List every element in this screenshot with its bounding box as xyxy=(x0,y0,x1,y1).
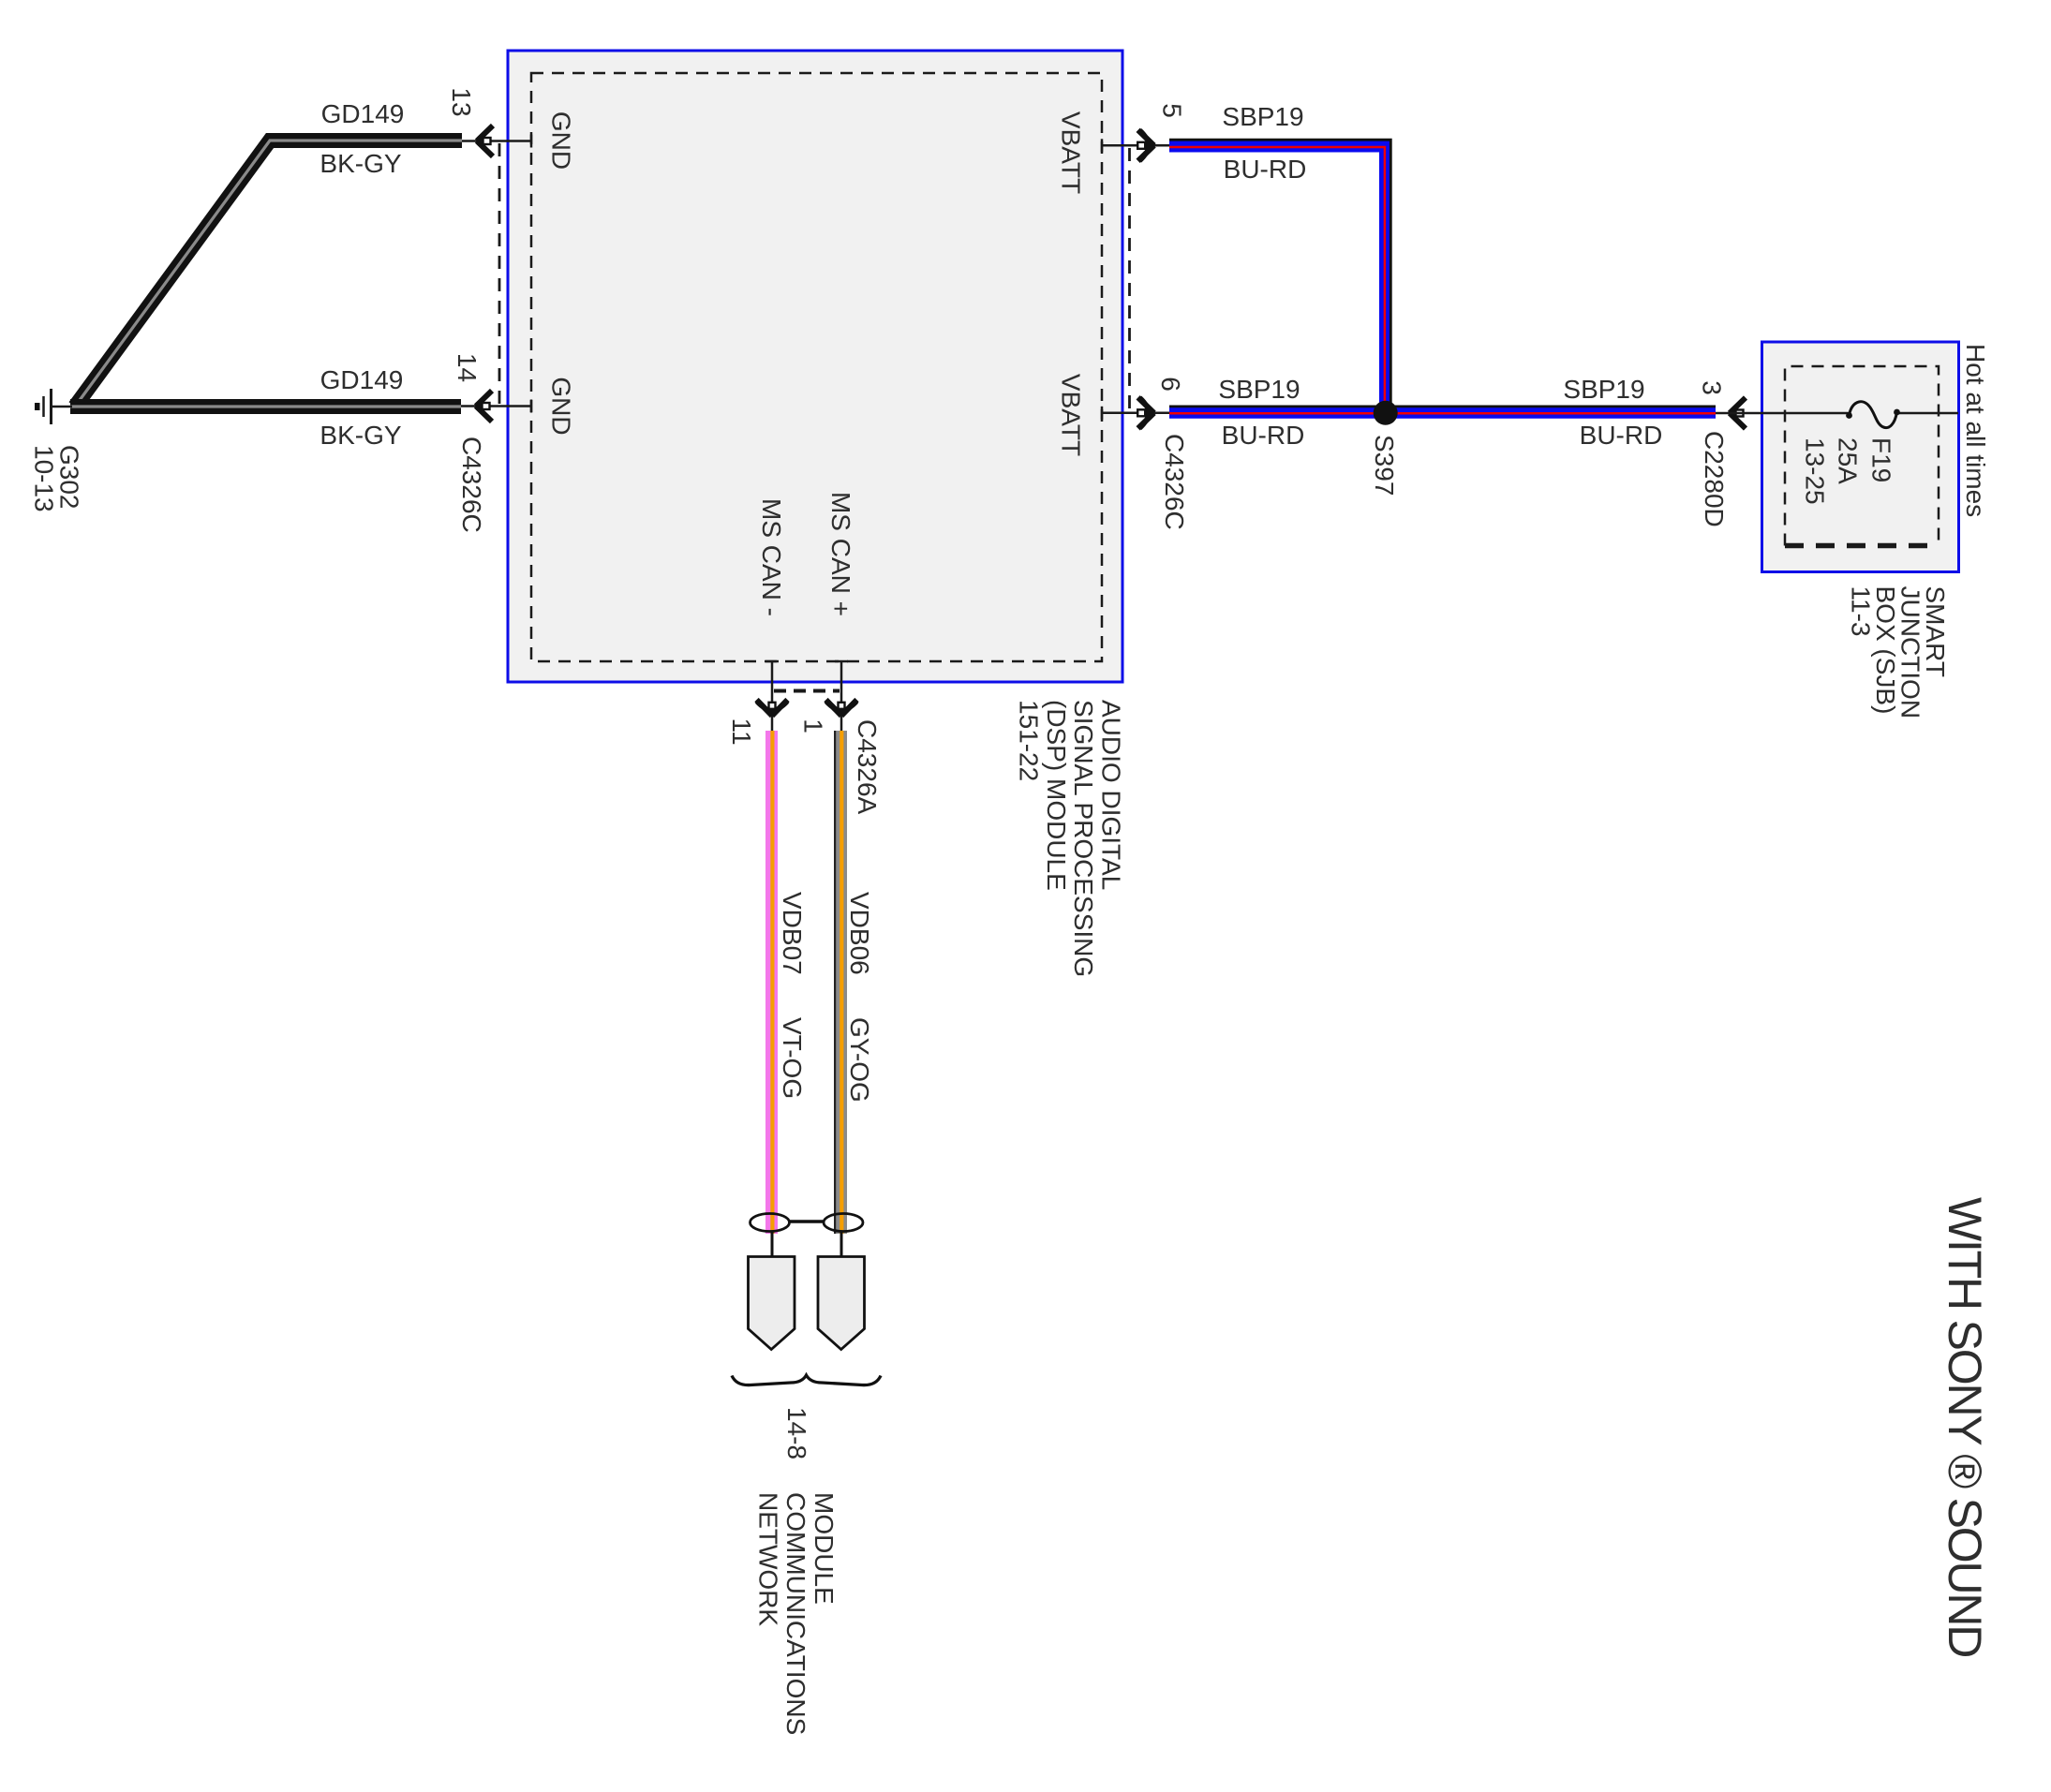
svg-text:1: 1 xyxy=(799,718,828,733)
pin 6 stub xyxy=(1102,407,1169,420)
arrow connector pin 14 (left) xyxy=(476,391,492,422)
wire SBP19 BU-RD pin 5 with corner down to splice xyxy=(1169,140,1390,408)
svg-text:MS CAN -: MS CAN - xyxy=(757,498,786,616)
wire VDB07 VT-OG (pink) xyxy=(765,731,778,1234)
svg-text:VBATT: VBATT xyxy=(1057,111,1086,194)
SJB box xyxy=(1762,342,1959,572)
svg-text:BU-RD: BU-RD xyxy=(1580,421,1663,450)
pin 11 stub xyxy=(765,661,779,731)
svg-text:151-22: 151-22 xyxy=(1015,700,1044,781)
svg-text:13: 13 xyxy=(447,87,476,116)
svg-text:SBP19: SBP19 xyxy=(1222,102,1303,131)
svg-text:13-25: 13-25 xyxy=(1801,437,1830,505)
svg-text:MS CAN +: MS CAN + xyxy=(826,492,855,616)
wire GD149 BK-GY pin 14 xyxy=(70,399,461,414)
arrow connector pin 11 (down, with arc) xyxy=(757,700,788,716)
module U1: Audio DSP module outer box xyxy=(508,51,1122,682)
svg-text:GY-OG: GY-OG xyxy=(845,1017,874,1103)
svg-text:GD149: GD149 xyxy=(321,99,405,128)
svg-text:GD149: GD149 xyxy=(320,365,404,394)
svg-text:VDB06: VDB06 xyxy=(845,892,874,975)
svg-text:MODULE: MODULE xyxy=(810,1492,839,1605)
pin 1 stub xyxy=(835,661,848,731)
svg-text:5: 5 xyxy=(1158,103,1187,118)
svg-text:C4326C: C4326C xyxy=(457,437,486,533)
ground G302 xyxy=(35,389,72,424)
connector C4326A dashed link pins 11-1 xyxy=(774,689,840,693)
connector C4326C dashed link pins 13-14 xyxy=(498,143,501,404)
svg-text:11: 11 xyxy=(727,718,756,745)
off-page arrow (MS CAN +) xyxy=(818,1257,865,1350)
svg-text:14: 14 xyxy=(453,353,482,382)
svg-text:VBATT: VBATT xyxy=(1057,374,1086,456)
brace under off-page arrows xyxy=(732,1375,881,1385)
svg-text:SBP19: SBP19 xyxy=(1563,375,1644,404)
arrow connector pin 3 C2280D (left) xyxy=(1730,398,1746,429)
svg-text:25A: 25A xyxy=(1834,437,1863,484)
wire inside SJB to fuse xyxy=(1716,412,1849,415)
svg-text:AUDIO DIGITAL: AUDIO DIGITAL xyxy=(1097,700,1126,890)
svg-text:BU-RD: BU-RD xyxy=(1224,155,1307,184)
arrow connector pin 5 (right, with arc) xyxy=(1137,130,1153,161)
svg-text:3: 3 xyxy=(1698,380,1727,395)
pin 14 stub xyxy=(461,400,531,413)
arrow connector pin 6 (right, with arc) xyxy=(1137,397,1153,428)
svg-text:Hot at all times: Hot at all times xyxy=(1961,344,1990,517)
pin 13 stub xyxy=(462,135,531,148)
svg-text:BK-GY: BK-GY xyxy=(320,149,401,178)
svg-text:C2280D: C2280D xyxy=(1700,431,1729,527)
svg-text:6: 6 xyxy=(1156,377,1185,392)
svg-text:SBP19: SBP19 xyxy=(1218,375,1300,404)
svg-text:GND: GND xyxy=(547,377,576,435)
svg-text:GND: GND xyxy=(547,111,576,170)
svg-text:WITH SONY ® SOUND: WITH SONY ® SOUND xyxy=(1939,1197,1991,1656)
wire stubs below twisted pair xyxy=(771,1232,774,1257)
svg-text:C4326C: C4326C xyxy=(1160,434,1189,530)
svg-text:VDB07: VDB07 xyxy=(778,892,807,975)
wire GD149 BK-GY pin 13 xyxy=(75,141,462,407)
fuse F19 xyxy=(1846,402,1900,428)
svg-text:F19: F19 xyxy=(1867,437,1896,482)
svg-text:VT-OG: VT-OG xyxy=(778,1017,807,1099)
off-page arrow (MS CAN -) xyxy=(749,1257,795,1350)
svg-text:11-3: 11-3 xyxy=(1847,586,1876,637)
svg-text:14-8: 14-8 xyxy=(782,1407,811,1459)
splice S397 xyxy=(1374,401,1398,425)
svg-text:COMMUNICATIONS: COMMUNICATIONS xyxy=(781,1492,810,1735)
svg-text:BK-GY: BK-GY xyxy=(320,421,401,450)
arrow connector pin 1 (down, with arc) xyxy=(826,700,857,716)
svg-text:S397: S397 xyxy=(1370,435,1399,496)
svg-text:BU-RD: BU-RD xyxy=(1222,421,1305,450)
twisted pair loops xyxy=(751,1214,864,1232)
wire SBP19 BU-RD pin 6 to C2280D xyxy=(1169,407,1716,413)
wire VDB06 GY-OG (gray) xyxy=(834,731,847,1234)
svg-text:(DSP) MODULE: (DSP) MODULE xyxy=(1042,700,1071,891)
svg-text:NETWORK: NETWORK xyxy=(754,1492,783,1626)
svg-text:10-13: 10-13 xyxy=(30,445,59,512)
svg-text:SIGNAL PROCESSING: SIGNAL PROCESSING xyxy=(1069,700,1098,977)
connector C4326C dashed link pins 5-6 xyxy=(1128,148,1131,410)
pin 5 stub xyxy=(1102,139,1169,152)
svg-text:C4326A: C4326A xyxy=(853,719,882,815)
arrow connector pin 13 (left) xyxy=(477,126,493,156)
